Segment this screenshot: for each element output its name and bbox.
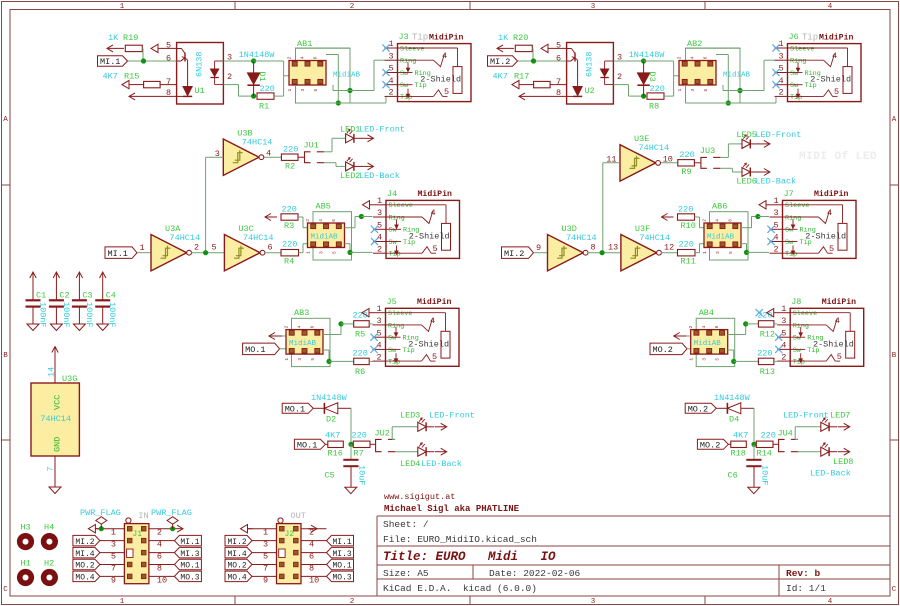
svg-text:3: 3 — [690, 89, 696, 92]
svg-text:R18: R18 — [731, 449, 746, 459]
svg-text:3: 3 — [227, 52, 232, 62]
svg-text:AB6: AB6 — [712, 202, 727, 212]
svg-text:2: 2 — [377, 352, 382, 362]
svg-text:4: 4 — [442, 51, 447, 61]
svg-text:LED-Front: LED-Front — [783, 411, 829, 421]
svg-text:MidiAB: MidiAB — [333, 72, 361, 80]
svg-text:MIDI Of LED: MIDI Of LED — [799, 151, 877, 163]
svg-text:Tip: Tip — [785, 251, 797, 259]
svg-text:6: 6 — [556, 53, 561, 63]
svg-text:9: 9 — [263, 575, 268, 585]
svg-text:MidiPin: MidiPin — [822, 297, 856, 307]
svg-text:220: 220 — [678, 205, 693, 215]
svg-text:MI.1: MI.1 — [100, 57, 120, 67]
svg-text:H3: H3 — [21, 523, 31, 533]
svg-text:74HC14: 74HC14 — [170, 233, 201, 243]
svg-text:J2: J2 — [285, 530, 295, 539]
svg-text:MI.2: MI.2 — [228, 538, 247, 547]
svg-text:R8: R8 — [649, 102, 659, 112]
svg-text:J1: J1 — [132, 530, 142, 539]
svg-text:4K7: 4K7 — [325, 431, 340, 441]
svg-text:74HC14: 74HC14 — [242, 138, 273, 148]
svg-text:Tip: Tip — [793, 359, 805, 367]
svg-text:MidiAB: MidiAB — [694, 340, 722, 348]
svg-text:4K7: 4K7 — [493, 72, 508, 82]
svg-text:1K: 1K — [498, 33, 509, 43]
svg-text:2-Shield: 2-Shield — [813, 339, 854, 349]
svg-text:LED6: LED6 — [736, 177, 756, 187]
svg-text:C3: C3 — [82, 291, 92, 301]
svg-text:3: 3 — [377, 316, 382, 326]
svg-text:MidiPin: MidiPin — [418, 189, 452, 199]
svg-text:R4: R4 — [284, 257, 294, 267]
svg-text:2: 2 — [284, 325, 290, 328]
svg-text:6: 6 — [313, 56, 319, 59]
svg-text:4K7: 4K7 — [103, 72, 118, 82]
svg-text:MI.3: MI.3 — [333, 550, 352, 559]
svg-text:8: 8 — [309, 564, 314, 574]
svg-text:220: 220 — [282, 240, 297, 250]
svg-text:2: 2 — [389, 88, 394, 98]
svg-text:2: 2 — [377, 244, 382, 254]
svg-text:2: 2 — [774, 244, 779, 254]
svg-text:220: 220 — [283, 145, 298, 155]
svg-text:220: 220 — [353, 349, 368, 359]
svg-text:Sleeve: Sleeve — [793, 310, 817, 318]
svg-text:3: 3 — [779, 51, 784, 61]
svg-text:2: 2 — [617, 72, 622, 82]
svg-text:3: 3 — [781, 316, 786, 326]
svg-text:R15: R15 — [124, 72, 139, 82]
svg-text:J5: J5 — [387, 297, 397, 307]
svg-text:5: 5 — [728, 251, 734, 254]
svg-text:MidiPin: MidiPin — [429, 32, 463, 42]
svg-text:LED8: LED8 — [833, 457, 853, 467]
svg-text:9: 9 — [111, 575, 116, 585]
svg-text:2-Shield: 2-Shield — [805, 231, 846, 241]
svg-text:MO.3: MO.3 — [333, 574, 352, 583]
svg-text:LED-Front: LED-Front — [755, 130, 801, 140]
svg-text:C: C — [3, 586, 8, 594]
svg-text:PWR_FLAG: PWR_FLAG — [80, 508, 121, 518]
svg-text:JU3: JU3 — [700, 146, 715, 156]
svg-text:LED5: LED5 — [736, 130, 756, 140]
svg-text:1N4148W: 1N4148W — [714, 393, 751, 403]
svg-text:6: 6 — [157, 552, 162, 562]
svg-text:6: 6 — [331, 219, 337, 222]
svg-text:LED-Front: LED-Front — [429, 411, 475, 421]
svg-text:JU1: JU1 — [304, 140, 319, 150]
svg-text:MO.1: MO.1 — [245, 345, 265, 355]
svg-text:12: 12 — [664, 243, 674, 253]
svg-text:MidiAB: MidiAB — [311, 234, 339, 242]
svg-text:8: 8 — [157, 564, 162, 574]
svg-text:3: 3 — [591, 598, 596, 606]
svg-text:Sleeve: Sleeve — [389, 202, 413, 210]
svg-text:4: 4 — [715, 219, 721, 222]
svg-text:100nF: 100nF — [107, 302, 117, 328]
svg-text:1N4148W: 1N4148W — [239, 50, 276, 60]
svg-text:220: 220 — [352, 431, 367, 441]
svg-text:R13: R13 — [760, 367, 775, 377]
svg-text:3: 3 — [297, 358, 303, 361]
svg-text:Tip: Tip — [388, 359, 400, 367]
svg-text:Tip: Tip — [790, 94, 802, 102]
svg-text:1: 1 — [263, 528, 268, 538]
svg-text:R19: R19 — [123, 33, 138, 43]
svg-text:LED-Back: LED-Back — [755, 177, 796, 187]
svg-text:4: 4 — [300, 56, 306, 59]
svg-text:AB4: AB4 — [699, 308, 714, 318]
svg-text:4: 4 — [828, 3, 833, 11]
svg-text:D2: D2 — [326, 415, 336, 425]
svg-text:H4: H4 — [44, 523, 54, 533]
svg-text:MidiPin: MidiPin — [417, 297, 451, 307]
svg-text:LED1: LED1 — [340, 125, 360, 135]
svg-text:74HC14: 74HC14 — [243, 233, 274, 243]
svg-text:Id: 1/1: Id: 1/1 — [786, 583, 826, 594]
svg-text:1: 1 — [306, 251, 312, 254]
svg-text:GND: GND — [53, 437, 63, 452]
svg-text:5: 5 — [166, 41, 171, 51]
svg-text:R17: R17 — [514, 72, 529, 82]
svg-text:OUT: OUT — [291, 511, 306, 521]
svg-text:1: 1 — [702, 251, 708, 254]
svg-text:Tip: Tip — [802, 33, 818, 43]
svg-text:1: 1 — [377, 196, 382, 206]
svg-text:AB1: AB1 — [297, 39, 312, 49]
svg-text:R6: R6 — [355, 367, 365, 377]
svg-text:C1: C1 — [36, 291, 46, 301]
svg-text:1: 1 — [774, 196, 779, 206]
svg-text:MI.1: MI.1 — [108, 249, 128, 259]
svg-text:AB5: AB5 — [316, 202, 331, 212]
svg-text:H2: H2 — [44, 559, 54, 569]
svg-text:4: 4 — [430, 316, 435, 326]
svg-text:220: 220 — [679, 150, 694, 160]
svg-text:2: 2 — [688, 325, 694, 328]
svg-text:1: 1 — [689, 358, 695, 361]
svg-text:2: 2 — [305, 219, 311, 222]
svg-text:2-Shield: 2-Shield — [409, 231, 450, 241]
svg-text:3: 3 — [377, 208, 382, 218]
svg-text:1N4148W: 1N4148W — [629, 50, 666, 60]
svg-text:220: 220 — [757, 349, 772, 359]
svg-text:C5: C5 — [325, 471, 335, 481]
svg-text:U3G: U3G — [62, 374, 77, 384]
svg-text:LED-Back: LED-Back — [359, 171, 400, 181]
svg-text:5: 5 — [444, 87, 449, 97]
svg-text:J7: J7 — [784, 189, 794, 199]
svg-text:PWR_FLAG: PWR_FLAG — [151, 508, 192, 518]
svg-text:2: 2 — [779, 88, 784, 98]
svg-text:J8: J8 — [791, 297, 801, 307]
svg-text:LED3: LED3 — [400, 411, 420, 421]
svg-text:MO.2: MO.2 — [75, 562, 94, 571]
svg-text:3: 3 — [702, 358, 708, 361]
svg-text:10uF: 10uF — [357, 465, 367, 485]
svg-text:Title: EURO Midi IO: Title: EURO Midi IO — [383, 550, 556, 564]
svg-text:3: 3 — [715, 251, 721, 254]
svg-text:100nF: 100nF — [38, 302, 48, 328]
svg-text:Sleeve: Sleeve — [400, 45, 424, 53]
svg-text:A: A — [892, 116, 897, 124]
svg-text:Rev: b: Rev: b — [786, 568, 821, 579]
svg-text:6N138: 6N138 — [195, 51, 205, 77]
svg-text:MidiAB: MidiAB — [723, 72, 751, 80]
svg-text:R16: R16 — [328, 449, 343, 459]
svg-text:R5: R5 — [355, 330, 365, 340]
svg-text:6: 6 — [310, 325, 316, 328]
svg-text:R14: R14 — [757, 449, 772, 459]
svg-text:1: 1 — [377, 304, 382, 314]
svg-text:MidiPin: MidiPin — [814, 189, 848, 199]
svg-text:3: 3 — [319, 251, 325, 254]
svg-text:LED7: LED7 — [830, 411, 850, 421]
svg-text:R2: R2 — [285, 162, 295, 172]
svg-text:2-Shield: 2-Shield — [408, 339, 449, 349]
svg-text:U2: U2 — [585, 86, 595, 96]
svg-text:www.sigigut.at: www.sigigut.at — [384, 492, 455, 502]
svg-text:5: 5 — [332, 251, 338, 254]
svg-text:LED4: LED4 — [400, 459, 420, 469]
svg-text:MI.1: MI.1 — [180, 538, 199, 547]
svg-text:AB3: AB3 — [294, 308, 309, 318]
svg-text:VCC: VCC — [53, 395, 63, 410]
svg-text:5: 5 — [310, 358, 316, 361]
svg-text:B: B — [3, 352, 8, 360]
svg-text:3: 3 — [774, 208, 779, 218]
svg-text:R10: R10 — [681, 221, 696, 231]
svg-text:R9: R9 — [681, 167, 691, 177]
svg-text:MO.3: MO.3 — [180, 574, 199, 583]
svg-text:J6: J6 — [789, 32, 799, 42]
svg-text:5: 5 — [829, 244, 834, 254]
svg-text:1: 1 — [111, 528, 116, 538]
svg-text:6: 6 — [268, 243, 273, 253]
svg-text:MO.4: MO.4 — [228, 574, 247, 583]
svg-text:MidiPin: MidiPin — [819, 32, 853, 42]
svg-text:100nF: 100nF — [61, 302, 71, 328]
svg-text:4: 4 — [157, 540, 162, 550]
svg-text:6: 6 — [309, 552, 314, 562]
svg-text:100nF: 100nF — [84, 302, 94, 328]
svg-text:1K: 1K — [108, 33, 119, 43]
svg-text:C2: C2 — [59, 291, 69, 301]
svg-text:C6: C6 — [728, 471, 738, 481]
svg-text:2: 2 — [677, 56, 683, 59]
svg-text:MO.4: MO.4 — [75, 574, 94, 583]
svg-text:1: 1 — [284, 358, 290, 361]
svg-text:10: 10 — [157, 575, 167, 585]
svg-text:R11: R11 — [681, 257, 696, 267]
svg-text:4: 4 — [828, 598, 833, 606]
svg-text:1: 1 — [140, 243, 145, 253]
svg-text:MO.1: MO.1 — [297, 441, 317, 451]
svg-text:KiCad E.D.A. kicad (6.0.0): KiCad E.D.A. kicad (6.0.0) — [383, 583, 537, 594]
svg-text:220: 220 — [761, 431, 776, 441]
svg-text:AB2: AB2 — [687, 39, 702, 49]
svg-text:5: 5 — [556, 41, 561, 51]
svg-text:7: 7 — [46, 466, 56, 471]
svg-text:8: 8 — [591, 243, 596, 253]
svg-text:Size: A5: Size: A5 — [383, 568, 429, 579]
svg-text:2: 2 — [781, 352, 786, 362]
svg-text:MO.1: MO.1 — [285, 405, 305, 415]
svg-text:74HC14: 74HC14 — [639, 233, 670, 243]
svg-text:2: 2 — [350, 3, 355, 11]
svg-text:3: 3 — [389, 51, 394, 61]
svg-text:Michael Sigl aka PHATLINE: Michael Sigl aka PHATLINE — [384, 504, 520, 514]
svg-text:1N4148W: 1N4148W — [311, 393, 348, 403]
svg-text:B: B — [892, 352, 897, 360]
svg-text:MI.3: MI.3 — [180, 550, 199, 559]
svg-text:5: 5 — [433, 244, 438, 254]
svg-text:U1: U1 — [195, 86, 205, 96]
svg-text:IN: IN — [138, 511, 148, 521]
svg-text:R3: R3 — [284, 221, 294, 231]
svg-text:MO.1: MO.1 — [180, 562, 199, 571]
svg-text:R7: R7 — [354, 449, 364, 459]
svg-text:2: 2 — [702, 219, 708, 222]
svg-text:A: A — [3, 116, 8, 124]
svg-text:4: 4 — [431, 208, 436, 218]
svg-text:J4: J4 — [387, 189, 397, 199]
svg-text:Sleeve: Sleeve — [785, 202, 809, 210]
svg-text:74HC14: 74HC14 — [40, 414, 71, 424]
svg-text:2: 2 — [194, 243, 199, 253]
svg-text:7: 7 — [111, 564, 116, 574]
svg-text:MI.2: MI.2 — [490, 57, 510, 67]
svg-text:220: 220 — [282, 205, 297, 215]
svg-text:MidiAB: MidiAB — [707, 234, 735, 242]
svg-text:MO.2: MO.2 — [228, 562, 247, 571]
svg-text:MI.1: MI.1 — [333, 538, 352, 547]
svg-text:9: 9 — [536, 243, 541, 253]
svg-text:5: 5 — [111, 552, 116, 562]
svg-text:MI.2: MI.2 — [504, 249, 524, 259]
svg-text:D4: D4 — [729, 415, 739, 425]
svg-text:6: 6 — [703, 56, 709, 59]
svg-text:JU2: JU2 — [375, 429, 390, 439]
svg-text:3: 3 — [617, 52, 622, 62]
svg-text:3: 3 — [591, 3, 596, 11]
svg-text:4: 4 — [832, 51, 837, 61]
svg-text:6: 6 — [166, 53, 171, 63]
svg-text:14: 14 — [47, 367, 57, 377]
svg-text:R1: R1 — [259, 102, 269, 112]
svg-text:MO.2: MO.2 — [700, 441, 720, 451]
svg-text:5: 5 — [313, 89, 319, 92]
svg-text:1: 1 — [677, 89, 683, 92]
svg-text:1: 1 — [781, 304, 786, 314]
svg-text:File: EURO_MidiIO.kicad_sch: File: EURO_MidiIO.kicad_sch — [383, 534, 537, 545]
svg-text:6: 6 — [714, 325, 720, 328]
svg-text:2: 2 — [157, 528, 162, 538]
svg-text:LED-Back: LED-Back — [810, 469, 851, 479]
svg-text:MO.2: MO.2 — [688, 405, 708, 415]
svg-text:74HC14: 74HC14 — [566, 233, 597, 243]
svg-text:Tip: Tip — [400, 94, 412, 102]
svg-text:2: 2 — [350, 598, 355, 606]
svg-text:4: 4 — [835, 316, 840, 326]
svg-text:MidiAB: MidiAB — [289, 340, 317, 348]
svg-text:5: 5 — [834, 87, 839, 97]
svg-text:2: 2 — [287, 56, 293, 59]
svg-text:Tip: Tip — [412, 33, 428, 43]
svg-text:74HC14: 74HC14 — [639, 143, 670, 153]
svg-text:4: 4 — [701, 325, 707, 328]
svg-text:4: 4 — [297, 325, 303, 328]
svg-text:H1: H1 — [21, 559, 31, 569]
svg-text:4: 4 — [318, 219, 324, 222]
svg-text:1: 1 — [120, 598, 125, 606]
svg-text:7: 7 — [263, 564, 268, 574]
svg-text:10uF: 10uF — [760, 465, 770, 485]
svg-text:6N138: 6N138 — [585, 51, 595, 77]
svg-text:1: 1 — [120, 3, 125, 11]
svg-text:R12: R12 — [760, 330, 775, 340]
svg-text:4K7: 4K7 — [733, 431, 748, 441]
svg-text:C: C — [892, 586, 897, 594]
svg-text:Sleeve: Sleeve — [790, 45, 814, 53]
svg-text:MO.1: MO.1 — [333, 562, 352, 571]
svg-text:LED-Back: LED-Back — [421, 459, 462, 469]
svg-text:C4: C4 — [106, 291, 116, 301]
svg-text:7: 7 — [556, 77, 561, 87]
svg-text:6: 6 — [728, 219, 734, 222]
svg-text:4: 4 — [690, 56, 696, 59]
svg-text:5: 5 — [703, 89, 709, 92]
svg-text:Sleeve: Sleeve — [388, 310, 412, 318]
svg-text:MI.4: MI.4 — [228, 550, 247, 559]
svg-text:JU4: JU4 — [778, 429, 793, 439]
svg-text:MO.2: MO.2 — [653, 345, 673, 355]
svg-text:13: 13 — [608, 243, 618, 253]
svg-text:220: 220 — [679, 240, 694, 250]
svg-text:J3: J3 — [399, 32, 409, 42]
svg-text:MI.2: MI.2 — [75, 538, 94, 547]
svg-text:5: 5 — [212, 243, 217, 253]
svg-text:D1: D1 — [257, 72, 267, 82]
svg-text:2-Shield: 2-Shield — [420, 75, 461, 85]
svg-text:LED2: LED2 — [340, 171, 360, 181]
svg-text:5: 5 — [837, 352, 842, 362]
svg-text:R20: R20 — [513, 33, 528, 43]
svg-text:7: 7 — [166, 77, 171, 87]
svg-text:2: 2 — [227, 72, 232, 82]
svg-text:Tip: Tip — [389, 251, 401, 259]
svg-text:Date: 2022-02-06: Date: 2022-02-06 — [489, 568, 581, 579]
svg-text:LED-Front: LED-Front — [359, 125, 405, 135]
svg-text:3: 3 — [111, 540, 116, 550]
svg-text:5: 5 — [263, 552, 268, 562]
svg-text:D3: D3 — [647, 72, 657, 82]
svg-text:Sheet: /: Sheet: / — [383, 519, 429, 530]
svg-text:3: 3 — [300, 89, 306, 92]
svg-text:1: 1 — [287, 89, 293, 92]
svg-text:10: 10 — [309, 575, 319, 585]
svg-text:MI.4: MI.4 — [75, 550, 94, 559]
svg-text:4: 4 — [309, 540, 314, 550]
svg-text:5: 5 — [432, 352, 437, 362]
svg-text:2-Shield: 2-Shield — [810, 75, 851, 85]
svg-text:5: 5 — [715, 358, 721, 361]
svg-text:3: 3 — [263, 540, 268, 550]
svg-text:220: 220 — [353, 311, 368, 321]
svg-text:4: 4 — [827, 208, 832, 218]
